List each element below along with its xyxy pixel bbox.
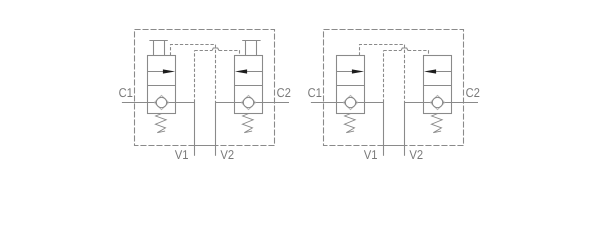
left: port label V1 [175, 150, 188, 159]
check valve right-A: flow line through body [337, 102, 365, 104]
left: port label C2 [277, 88, 290, 97]
left: port V2 riser [215, 103, 217, 156]
right: wire V2 node to valve B [405, 102, 424, 104]
left: wire V2 node to valve B [216, 102, 235, 104]
right: port V2 riser [404, 103, 406, 156]
check valve left-A: body [148, 56, 176, 114]
right: port label C2 [466, 88, 479, 97]
valve assembly left: enclosure (dashed) [135, 30, 275, 146]
right: port V1 riser [383, 103, 385, 156]
check valve right-A: poppet ball [345, 97, 355, 107]
right: port label V1 [364, 150, 377, 159]
right: pilot line crossover hop [401, 48, 408, 51]
left: port label V2 [220, 150, 233, 159]
left: pilot line from V2 to valve A (dashed) [171, 45, 216, 103]
right: port C2 line [452, 102, 479, 104]
left: pilot line from V1 to valve B (dashed) [194, 51, 196, 103]
check valve left-B: spring [242, 114, 253, 133]
check valve left-A: poppet seat [154, 95, 169, 110]
check valve left-A: pilot piston [153, 41, 155, 56]
check valve left-A: flow line through body [148, 102, 176, 104]
check valve right-B: body [424, 56, 452, 114]
check valve left-A: poppet ball [156, 97, 166, 107]
right: pilot line from V2 to valve A (dashed) [360, 45, 405, 103]
right: wire valve A to V1 node [365, 102, 384, 104]
check valve right-B: poppet seat [430, 95, 445, 110]
check valve right-B: flow line through body [424, 102, 452, 104]
left: pilot line crossover hop [212, 48, 219, 51]
check valve right-B: flow arrow [435, 71, 452, 73]
check valve right-A: poppet seat [343, 95, 358, 110]
check valve left-B: poppet ball [243, 97, 253, 107]
left: port V1 riser [194, 103, 196, 156]
right: pilot line from V1 to valve B (dashed) [383, 51, 385, 103]
valve assembly right: enclosure (dashed) [324, 30, 464, 146]
check valve left-A: flow arrow [148, 71, 165, 73]
check valve right-B: spring [431, 114, 442, 133]
right: port label V2 [409, 150, 422, 159]
check valve left-B: flow line through body [235, 102, 263, 104]
check valve left-B: body [235, 56, 263, 114]
left: wire valve A to V1 node [176, 102, 195, 104]
right: port C1 line [311, 102, 337, 104]
check valve right-A: spring [344, 114, 355, 133]
check valve left-B: flow arrow [246, 71, 263, 73]
check valve right-A: body [337, 56, 365, 114]
left: bottom link between V1 and V2 risers [195, 145, 216, 147]
check valve left-B: poppet seat [241, 95, 256, 110]
check valve right-B: poppet ball [432, 97, 442, 107]
left: port label C1 [119, 88, 132, 97]
right: port label C1 [308, 88, 321, 97]
check valve left-B: pilot piston [245, 41, 247, 56]
check valve right-A: flow arrow [337, 71, 354, 73]
check valve left-A: spring [155, 114, 166, 133]
left: port C1 line [122, 102, 148, 104]
right: bottom link between V1 and V2 risers [384, 145, 405, 147]
left: port C2 line [263, 102, 290, 104]
